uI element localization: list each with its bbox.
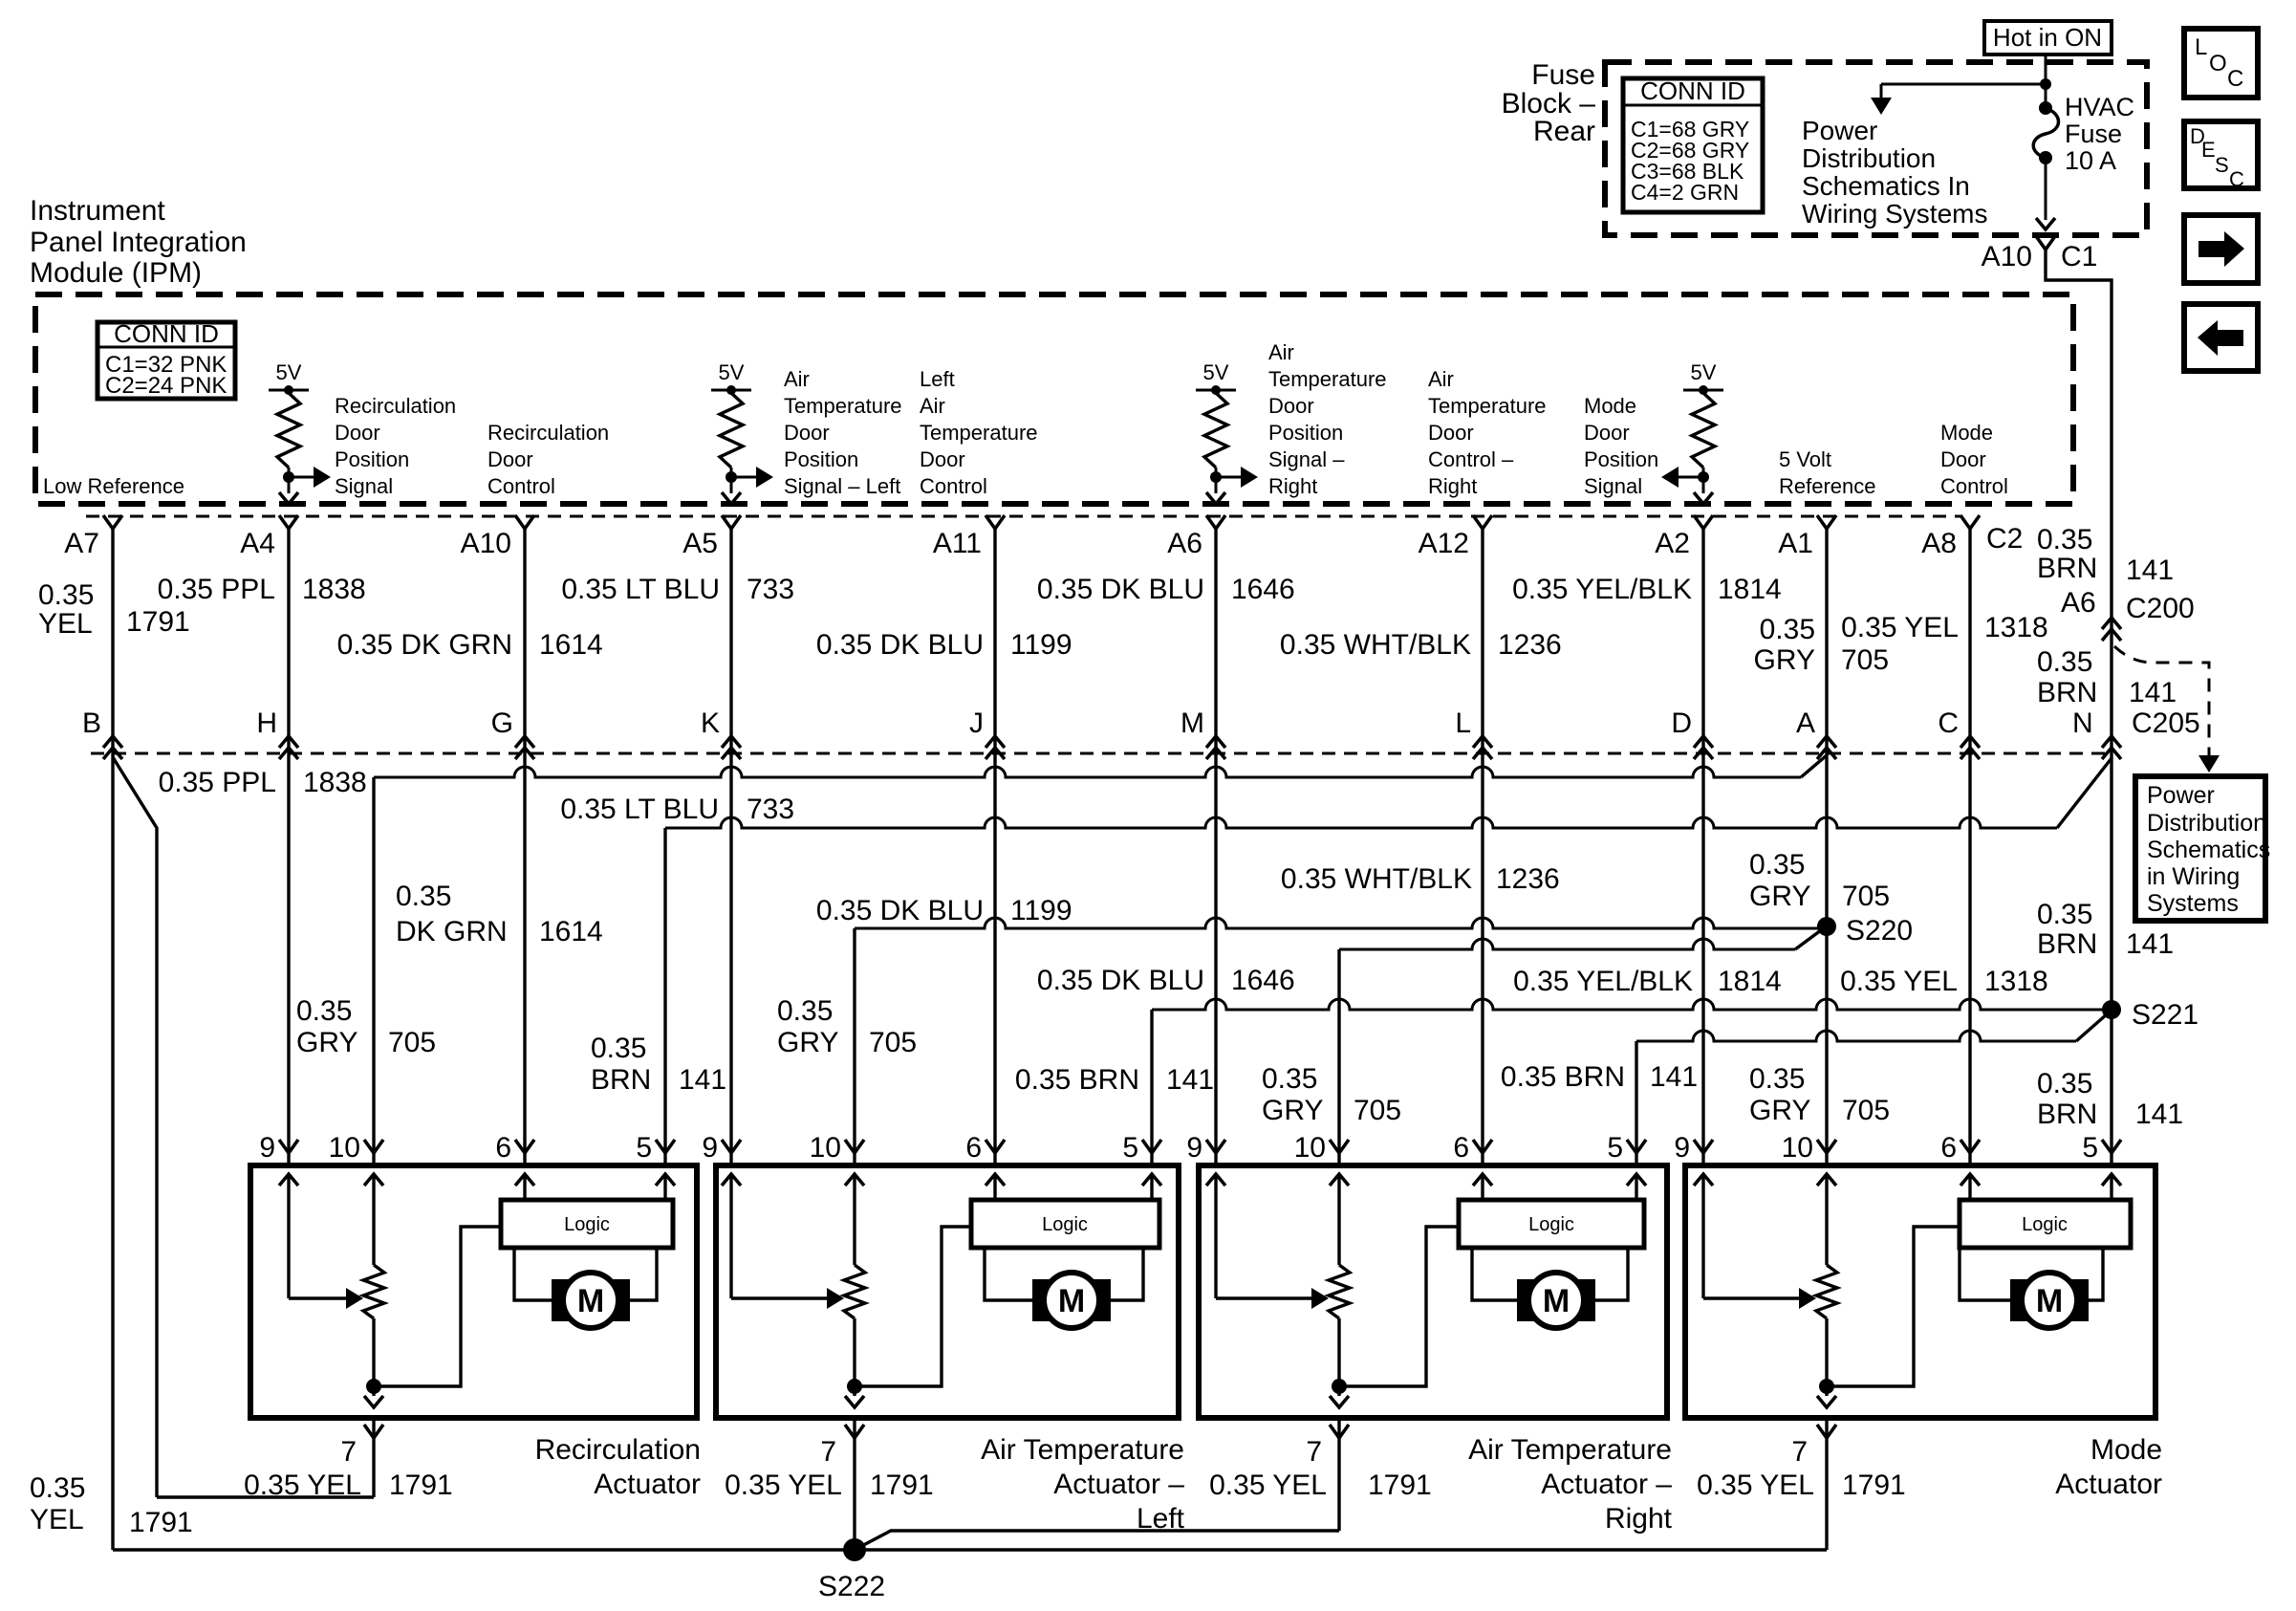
svg-text:A10: A10 bbox=[461, 528, 511, 559]
LOC icon box bbox=[2184, 29, 2258, 98]
Fuse Block - Rear dashed box bbox=[1605, 62, 2147, 235]
svg-text:1199: 1199 bbox=[1010, 895, 1072, 926]
svg-text:Schematics In: Schematics In bbox=[1802, 171, 1970, 201]
pin 10 of actuator U3 bbox=[1330, 1140, 1349, 1153]
svg-text:Power: Power bbox=[1802, 116, 1877, 145]
logic block U4 bbox=[1960, 1200, 2131, 1248]
Hot in ON box bbox=[1984, 21, 2112, 54]
svg-text:0.35 LT BLU: 0.35 LT BLU bbox=[560, 794, 719, 825]
svg-text:C: C bbox=[2229, 167, 2244, 191]
svg-text:0.35 PPL: 0.35 PPL bbox=[158, 574, 275, 605]
svg-text:Control: Control bbox=[487, 474, 555, 498]
svg-text:705: 705 bbox=[869, 1027, 917, 1058]
svg-text:Actuator –: Actuator – bbox=[1053, 1469, 1184, 1500]
svg-text:BRN: BRN bbox=[2037, 1099, 2097, 1130]
svg-text:M: M bbox=[1180, 708, 1204, 739]
logic block U1 bbox=[501, 1200, 673, 1248]
wire act2 pin5 feed bbox=[1150, 1010, 1153, 1165]
wire wiper to logic U3 bbox=[1339, 1227, 1459, 1386]
pin M C205 bbox=[1206, 736, 1225, 748]
svg-text:Position: Position bbox=[335, 447, 409, 471]
svg-text:Door: Door bbox=[920, 447, 965, 471]
svg-text:1814: 1814 bbox=[1718, 574, 1782, 605]
motor wires U1 bbox=[514, 1248, 552, 1300]
svg-text:Door: Door bbox=[1940, 447, 1986, 471]
svg-text:1614: 1614 bbox=[539, 916, 603, 947]
pin 9 of actuator U2 bbox=[722, 1140, 741, 1153]
svg-text:Control: Control bbox=[1940, 474, 2008, 498]
svg-text:5V: 5V bbox=[1691, 360, 1717, 384]
potentiometer wiper arrow U4 bbox=[1703, 1296, 1802, 1299]
svg-text:1199: 1199 bbox=[1010, 629, 1072, 661]
wire A12/L 0.35 WHT/BLK 1236 to act3 pin6 bbox=[1481, 529, 1484, 1165]
wire act2 pin7 to S222 bbox=[853, 1418, 856, 1550]
svg-text:Temperature: Temperature bbox=[920, 421, 1038, 445]
internal wires actuator U1 bbox=[279, 1174, 298, 1186]
svg-text:C200: C200 bbox=[2126, 593, 2195, 624]
svg-text:0.35: 0.35 bbox=[296, 995, 352, 1027]
pin J C205 bbox=[986, 736, 1005, 748]
svg-text:0.35: 0.35 bbox=[1262, 1063, 1317, 1095]
pin 6 of actuator U1 bbox=[515, 1140, 534, 1153]
wire fuse output bbox=[2045, 158, 2047, 220]
wire low-ref branch to act1 pin7 bbox=[157, 1495, 374, 1498]
svg-text:Control: Control bbox=[920, 474, 987, 498]
potentiometer wiper arrow U3 bbox=[1216, 1296, 1314, 1299]
svg-text:0.35: 0.35 bbox=[2037, 899, 2092, 930]
svg-text:733: 733 bbox=[747, 794, 794, 825]
motor wires U2 bbox=[985, 1248, 1032, 1300]
svg-text:O: O bbox=[2209, 51, 2227, 76]
svg-text:Recirculation: Recirculation bbox=[535, 1434, 701, 1466]
C205 inline connector dashed line bbox=[91, 752, 2112, 755]
svg-text:Door: Door bbox=[1428, 421, 1474, 445]
svg-text:1646: 1646 bbox=[1231, 965, 1295, 996]
wire act2 pin10 feed bbox=[853, 928, 856, 1165]
motor M U4 bbox=[2010, 1279, 2029, 1321]
svg-text:0.35 DK BLU: 0.35 DK BLU bbox=[1037, 965, 1204, 996]
pin 5 of actuator U2 bbox=[1142, 1140, 1161, 1153]
IPM module dashed box bbox=[35, 294, 2073, 504]
svg-text:0.35: 0.35 bbox=[38, 579, 94, 611]
svg-text:141: 141 bbox=[2129, 677, 2177, 708]
logic block U3 bbox=[1459, 1200, 1644, 1248]
svg-text:6: 6 bbox=[495, 1132, 511, 1164]
svg-text:A2: A2 bbox=[1655, 528, 1690, 559]
wire wiper to logic U2 bbox=[855, 1227, 971, 1386]
svg-text:Temperature: Temperature bbox=[1428, 394, 1547, 418]
wire 5V reference bus 0.35 GRY 705 (A pin to act1 pin10) bbox=[374, 767, 1801, 777]
svg-text:0.35 DK BLU: 0.35 DK BLU bbox=[816, 895, 984, 926]
svg-text:S222: S222 bbox=[818, 1571, 885, 1602]
svg-text:Actuator: Actuator bbox=[594, 1469, 701, 1500]
svg-text:BRN: BRN bbox=[591, 1064, 651, 1096]
svg-text:Air: Air bbox=[920, 394, 945, 418]
svg-text:GRY: GRY bbox=[1749, 1095, 1810, 1126]
svg-text:7: 7 bbox=[1306, 1436, 1322, 1468]
fuse HVAC Fuse 10 A bbox=[2039, 101, 2052, 115]
svg-text:Signal: Signal bbox=[335, 474, 393, 498]
svg-text:1791: 1791 bbox=[870, 1469, 934, 1501]
svg-text:YEL: YEL bbox=[30, 1504, 84, 1535]
wire A6/M 0.35 DK BLU 1646 to act3 pin9 bbox=[1214, 529, 1217, 1165]
motor M U1 bbox=[552, 1279, 571, 1321]
svg-text:Distribution: Distribution bbox=[1802, 143, 1936, 173]
svg-text:S: S bbox=[2215, 153, 2229, 177]
svg-text:GRY: GRY bbox=[777, 1027, 838, 1058]
svg-text:Logic: Logic bbox=[1042, 1214, 1088, 1235]
svg-text:0.35: 0.35 bbox=[1760, 614, 1815, 645]
svg-text:Signal: Signal bbox=[1584, 474, 1642, 498]
svg-text:1646: 1646 bbox=[1231, 574, 1295, 605]
svg-text:0.35 LT BLU: 0.35 LT BLU bbox=[561, 574, 720, 605]
svg-text:L: L bbox=[2195, 34, 2207, 60]
svg-text:Instrument: Instrument bbox=[30, 195, 165, 227]
svg-text:1838: 1838 bbox=[302, 574, 366, 605]
svg-text:5: 5 bbox=[636, 1132, 652, 1164]
svg-text:1236: 1236 bbox=[1498, 629, 1562, 661]
svg-text:0.35: 0.35 bbox=[30, 1472, 85, 1504]
wire wiper to logic U4 bbox=[1827, 1227, 1960, 1386]
svg-text:0.35: 0.35 bbox=[1749, 1063, 1805, 1095]
svg-text:GRY: GRY bbox=[1754, 644, 1815, 676]
pin 5 of actuator U3 bbox=[1627, 1140, 1646, 1153]
svg-text:M: M bbox=[1058, 1283, 1085, 1319]
Power Distribution Schematics in Wiring Systems box bbox=[2135, 776, 2265, 921]
svg-text:1791: 1791 bbox=[129, 1507, 193, 1538]
svg-text:C: C bbox=[1938, 708, 1959, 739]
svg-text:A1: A1 bbox=[1778, 528, 1813, 559]
wire act1 pin10 feed bbox=[372, 777, 375, 1165]
wire fuse to C200 (0.35 BRN 141) bbox=[2046, 250, 2112, 614]
pin 6 of actuator U2 bbox=[986, 1140, 1005, 1153]
svg-text:6: 6 bbox=[1940, 1132, 1957, 1164]
svg-text:Air: Air bbox=[784, 367, 810, 391]
svg-text:Position: Position bbox=[1584, 447, 1658, 471]
svg-text:Mode: Mode bbox=[2090, 1434, 2162, 1466]
pin A7 bbox=[103, 515, 122, 529]
actuator U1 box (Recirculation) bbox=[250, 1165, 697, 1418]
svg-text:GRY: GRY bbox=[1749, 881, 1810, 912]
IPM connector row dashed line bbox=[86, 515, 1962, 518]
svg-text:C2=24 PNK: C2=24 PNK bbox=[105, 373, 227, 399]
svg-text:0.35: 0.35 bbox=[2037, 1068, 2092, 1099]
potentiometer resistor U1 bbox=[363, 1265, 384, 1318]
svg-text:1791: 1791 bbox=[389, 1469, 453, 1501]
internal wires actuator U4 bbox=[1694, 1174, 1713, 1186]
wire bottom low reference bus 0.35 YEL 1791 bbox=[113, 1548, 1827, 1551]
wire low ref bus 0.35 BRN 141 (N to act1 pin5) bbox=[665, 817, 2057, 828]
logic block U2 bbox=[971, 1200, 1159, 1248]
svg-text:0.35: 0.35 bbox=[2037, 646, 2092, 678]
svg-text:BRN: BRN bbox=[2037, 928, 2097, 960]
pin C C205 bbox=[1960, 736, 1980, 748]
svg-text:Recirculation: Recirculation bbox=[335, 394, 456, 418]
svg-text:0.35 YEL: 0.35 YEL bbox=[1841, 612, 1959, 643]
wire from Hot in ON to fuse bbox=[2045, 54, 2047, 103]
svg-text:A5: A5 bbox=[682, 528, 718, 559]
junction wiper output U2 bbox=[847, 1379, 862, 1394]
svg-text:Power: Power bbox=[2147, 782, 2215, 809]
svg-text:9: 9 bbox=[702, 1132, 718, 1164]
svg-text:1838: 1838 bbox=[303, 767, 367, 798]
pin 9 of actuator U4 bbox=[1694, 1140, 1713, 1153]
pin A6 bbox=[1206, 515, 1225, 529]
svg-text:Logic: Logic bbox=[2022, 1214, 2068, 1235]
svg-text:1318: 1318 bbox=[1984, 966, 2048, 997]
svg-text:9: 9 bbox=[259, 1132, 275, 1164]
pin B C205 bbox=[103, 736, 122, 748]
svg-text:7: 7 bbox=[340, 1436, 357, 1468]
svg-text:Temperature: Temperature bbox=[1268, 367, 1387, 391]
svg-text:0.35 DK BLU: 0.35 DK BLU bbox=[1037, 574, 1204, 605]
splice S221 bbox=[2102, 1000, 2121, 1019]
svg-text:Reference: Reference bbox=[1779, 474, 1876, 498]
svg-text:10 A: 10 A bbox=[2065, 146, 2116, 175]
svg-text:Rear: Rear bbox=[1533, 116, 1595, 147]
pin D C205 bbox=[1694, 736, 1713, 748]
svg-text:CONN ID: CONN ID bbox=[114, 319, 219, 348]
svg-text:A6: A6 bbox=[1167, 528, 1202, 559]
svg-text:0.35 YEL: 0.35 YEL bbox=[1840, 966, 1958, 997]
svg-text:9: 9 bbox=[1674, 1132, 1690, 1164]
wire act3 pin5 feed bbox=[1635, 1041, 1637, 1165]
svg-text:0.35 WHT/BLK: 0.35 WHT/BLK bbox=[1280, 629, 1471, 661]
wire N 0.35 BRN 141 to act4 pin5 bbox=[2110, 614, 2112, 1165]
svg-text:C205: C205 bbox=[2132, 708, 2200, 739]
svg-text:BRN: BRN bbox=[2037, 553, 2097, 584]
svg-text:705: 705 bbox=[1354, 1095, 1401, 1126]
svg-text:Actuator: Actuator bbox=[2055, 1469, 2162, 1500]
wire A8/C 0.35 YEL 1318 to act4 pin6 bbox=[1968, 529, 1971, 1165]
pin 6 of actuator U4 bbox=[1960, 1140, 1980, 1153]
svg-text:1814: 1814 bbox=[1718, 966, 1782, 997]
wire A10/G 0.35 DK GRN 1614 to act1 pin6 bbox=[523, 529, 526, 1165]
svg-text:Module (IPM): Module (IPM) bbox=[30, 257, 202, 289]
C200 crossing chevrons on BRN 141 wire bbox=[2102, 618, 2121, 629]
svg-text:CONN ID: CONN ID bbox=[1640, 76, 1745, 105]
potentiometer wiper arrow U2 bbox=[731, 1296, 830, 1299]
wire A4/H 0.35 PPL 1838 to act1 pin9 bbox=[287, 529, 290, 1165]
junction wiper output U3 bbox=[1332, 1379, 1347, 1394]
actuator U4 box (Mode) bbox=[1685, 1165, 2155, 1418]
svg-text:1318: 1318 bbox=[1984, 612, 2048, 643]
pin 10 of actuator U1 bbox=[364, 1140, 383, 1153]
pin 7 of actuator U2 bbox=[845, 1425, 864, 1438]
motor wires U4 bbox=[1960, 1248, 2010, 1300]
svg-text:G: G bbox=[491, 708, 513, 739]
svg-text:Air Temperature: Air Temperature bbox=[1468, 1434, 1672, 1466]
svg-text:J: J bbox=[969, 708, 984, 739]
svg-text:5V: 5V bbox=[276, 360, 302, 384]
splice S220 bbox=[1817, 917, 1836, 936]
wire low ref bus to act3 pin5 (S221 branch 2) bbox=[1636, 1031, 2076, 1041]
svg-text:DK GRN: DK GRN bbox=[396, 916, 508, 947]
pin A C205 bbox=[1817, 736, 1836, 748]
pin K C205 bbox=[722, 736, 741, 748]
svg-text:0.35 YEL/BLK: 0.35 YEL/BLK bbox=[1512, 574, 1692, 605]
svg-text:Door: Door bbox=[1584, 421, 1630, 445]
svg-text:7: 7 bbox=[820, 1436, 836, 1468]
svg-text:0.35 DK GRN: 0.35 DK GRN bbox=[337, 629, 512, 661]
wire A1/A 0.35 GRY 705 to act4 pin10 bbox=[1825, 529, 1828, 1165]
svg-text:0.35 PPL: 0.35 PPL bbox=[159, 767, 276, 798]
pin A2 bbox=[1694, 515, 1713, 529]
svg-text:E: E bbox=[2201, 138, 2216, 162]
svg-text:C4=2 GRN: C4=2 GRN bbox=[1631, 180, 1739, 205]
svg-text:141: 141 bbox=[2135, 1099, 2183, 1130]
pin A5 bbox=[722, 515, 741, 529]
svg-text:Position: Position bbox=[784, 447, 858, 471]
svg-text:Panel Integration: Panel Integration bbox=[30, 227, 247, 258]
svg-text:N: N bbox=[2072, 708, 2093, 739]
junction wiper output U1 bbox=[366, 1379, 381, 1394]
pin A4 bbox=[279, 515, 298, 529]
svg-text:H: H bbox=[256, 708, 277, 739]
svg-text:0.35: 0.35 bbox=[777, 995, 833, 1027]
svg-text:S221: S221 bbox=[2132, 999, 2199, 1031]
wire act1 pin7 to low-ref bbox=[372, 1418, 375, 1497]
svg-text:BRN: BRN bbox=[2037, 677, 2097, 708]
svg-text:5: 5 bbox=[1607, 1132, 1623, 1164]
pin H C205 bbox=[279, 736, 298, 748]
svg-text:Actuator –: Actuator – bbox=[1541, 1469, 1672, 1500]
svg-text:Left: Left bbox=[920, 367, 955, 391]
svg-text:Systems: Systems bbox=[2147, 890, 2239, 917]
svg-text:0.35: 0.35 bbox=[591, 1033, 646, 1064]
motor M U2 bbox=[1032, 1279, 1051, 1321]
svg-text:Fuse: Fuse bbox=[1531, 59, 1595, 91]
svg-text:Right: Right bbox=[1428, 474, 1477, 498]
svg-text:10: 10 bbox=[329, 1132, 360, 1164]
svg-text:Air Temperature: Air Temperature bbox=[981, 1434, 1184, 1466]
actuator U2 box (Air Temperature) bbox=[716, 1165, 1179, 1418]
svg-text:Signal –: Signal – bbox=[1268, 447, 1345, 471]
svg-text:A4: A4 bbox=[240, 528, 275, 559]
svg-text:141: 141 bbox=[2126, 928, 2174, 960]
svg-text:6: 6 bbox=[1453, 1132, 1469, 1164]
svg-text:1236: 1236 bbox=[1496, 863, 1560, 895]
svg-text:10: 10 bbox=[1782, 1132, 1813, 1164]
svg-text:Fuse: Fuse bbox=[2065, 120, 2122, 148]
potentiometer resistor U2 bbox=[844, 1265, 865, 1318]
potentiometer resistor U4 bbox=[1816, 1265, 1837, 1318]
wire act4 pin7 to low-ref bbox=[1825, 1418, 1828, 1550]
svg-text:0.35: 0.35 bbox=[2037, 524, 2092, 555]
svg-text:GRY: GRY bbox=[1262, 1095, 1323, 1126]
internal wires actuator U3 bbox=[1206, 1174, 1225, 1186]
svg-text:D: D bbox=[1671, 708, 1692, 739]
dashed reference to power distribution schematics bbox=[2114, 646, 2209, 755]
pin G C205 bbox=[515, 736, 534, 748]
svg-text:705: 705 bbox=[1842, 1095, 1890, 1126]
svg-text:A10: A10 bbox=[1982, 241, 2032, 272]
svg-text:C: C bbox=[2227, 66, 2243, 92]
svg-text:141: 141 bbox=[1650, 1061, 1698, 1093]
wire A7/B low reference 0.35 YEL 1791 bbox=[111, 529, 114, 1550]
wire wiper to logic U1 bbox=[374, 1227, 501, 1386]
svg-text:0.35 YEL: 0.35 YEL bbox=[1697, 1469, 1814, 1501]
svg-text:5V: 5V bbox=[1203, 360, 1229, 384]
svg-text:Temperature: Temperature bbox=[784, 394, 902, 418]
svg-text:7: 7 bbox=[1791, 1436, 1808, 1468]
pin N C205 bbox=[2102, 736, 2121, 748]
svg-text:Control –: Control – bbox=[1428, 447, 1514, 471]
svg-text:A: A bbox=[1796, 708, 1815, 739]
svg-text:705: 705 bbox=[1841, 644, 1889, 676]
svg-text:M: M bbox=[1543, 1283, 1570, 1319]
pin L C205 bbox=[1473, 736, 1492, 748]
svg-text:Logic: Logic bbox=[564, 1214, 610, 1235]
svg-text:Recirculation: Recirculation bbox=[487, 421, 609, 445]
svg-text:Door: Door bbox=[335, 421, 380, 445]
svg-text:0.35 BRN: 0.35 BRN bbox=[1501, 1061, 1625, 1093]
svg-text:Schematics: Schematics bbox=[2147, 837, 2270, 863]
svg-text:M: M bbox=[2036, 1283, 2063, 1319]
left arrow icon box bbox=[2184, 304, 2258, 371]
junction wiper output U4 bbox=[1819, 1379, 1834, 1394]
svg-text:Distribution: Distribution bbox=[2147, 810, 2266, 837]
svg-text:10: 10 bbox=[810, 1132, 841, 1164]
svg-text:Air: Air bbox=[1268, 340, 1294, 364]
svg-text:705: 705 bbox=[388, 1027, 436, 1058]
pin A10 bbox=[515, 515, 534, 529]
pin 9 of actuator U1 bbox=[279, 1140, 298, 1153]
svg-text:HVAC: HVAC bbox=[2065, 93, 2134, 121]
svg-text:Door: Door bbox=[784, 421, 830, 445]
svg-text:141: 141 bbox=[679, 1064, 726, 1096]
svg-text:6: 6 bbox=[965, 1132, 982, 1164]
wire act3 pin7 to low-ref bbox=[1337, 1418, 1340, 1531]
svg-text:10: 10 bbox=[1294, 1132, 1326, 1164]
svg-text:S220: S220 bbox=[1846, 915, 1913, 947]
motor wires U3 bbox=[1472, 1248, 1517, 1300]
svg-text:YEL: YEL bbox=[38, 608, 93, 640]
potentiometer wiper arrow U1 bbox=[289, 1296, 349, 1299]
svg-text:0.35 YEL: 0.35 YEL bbox=[1209, 1469, 1327, 1501]
pin 10 of actuator U2 bbox=[845, 1140, 864, 1153]
svg-text:Door: Door bbox=[487, 447, 533, 471]
wire A2/D 0.35 YEL/BLK 1814 to act4 pin9 bbox=[1701, 529, 1704, 1165]
pin 5 of actuator U1 bbox=[656, 1140, 675, 1153]
svg-text:0.35: 0.35 bbox=[396, 881, 451, 912]
wire low ref bus to act2 pin5 (S221 branch) bbox=[1152, 999, 2112, 1010]
branch arrow to power distribution bbox=[1881, 83, 2046, 86]
pin A1 bbox=[1817, 515, 1836, 529]
junction on fuse feed bbox=[2040, 78, 2051, 90]
svg-text:5: 5 bbox=[2082, 1132, 2098, 1164]
pin 7 of actuator U3 bbox=[1330, 1425, 1349, 1438]
svg-text:5: 5 bbox=[1122, 1132, 1138, 1164]
internal wires actuator U2 bbox=[722, 1174, 741, 1186]
svg-text:733: 733 bbox=[747, 574, 794, 605]
svg-text:0.35 WHT/BLK: 0.35 WHT/BLK bbox=[1281, 863, 1472, 895]
svg-text:0.35: 0.35 bbox=[1749, 849, 1805, 881]
svg-text:M: M bbox=[577, 1283, 604, 1319]
svg-text:1791: 1791 bbox=[126, 606, 190, 638]
svg-text:Hot in ON: Hot in ON bbox=[1993, 23, 2102, 52]
svg-text:A11: A11 bbox=[933, 528, 982, 559]
pin 9 of actuator U3 bbox=[1206, 1140, 1225, 1153]
svg-text:GRY: GRY bbox=[296, 1027, 357, 1058]
wire 5V bus to act2 pin10 (S220 branch) bbox=[855, 918, 1821, 928]
pin A8 bbox=[1960, 515, 1980, 529]
pin 7 of actuator U4 bbox=[1817, 1425, 1836, 1438]
svg-text:141: 141 bbox=[2126, 555, 2174, 586]
wire 5V bus to act3 pin10 (S220 branch 2) bbox=[1339, 939, 1795, 949]
splice S222 bbox=[843, 1538, 866, 1561]
right arrow icon box bbox=[2184, 215, 2258, 283]
